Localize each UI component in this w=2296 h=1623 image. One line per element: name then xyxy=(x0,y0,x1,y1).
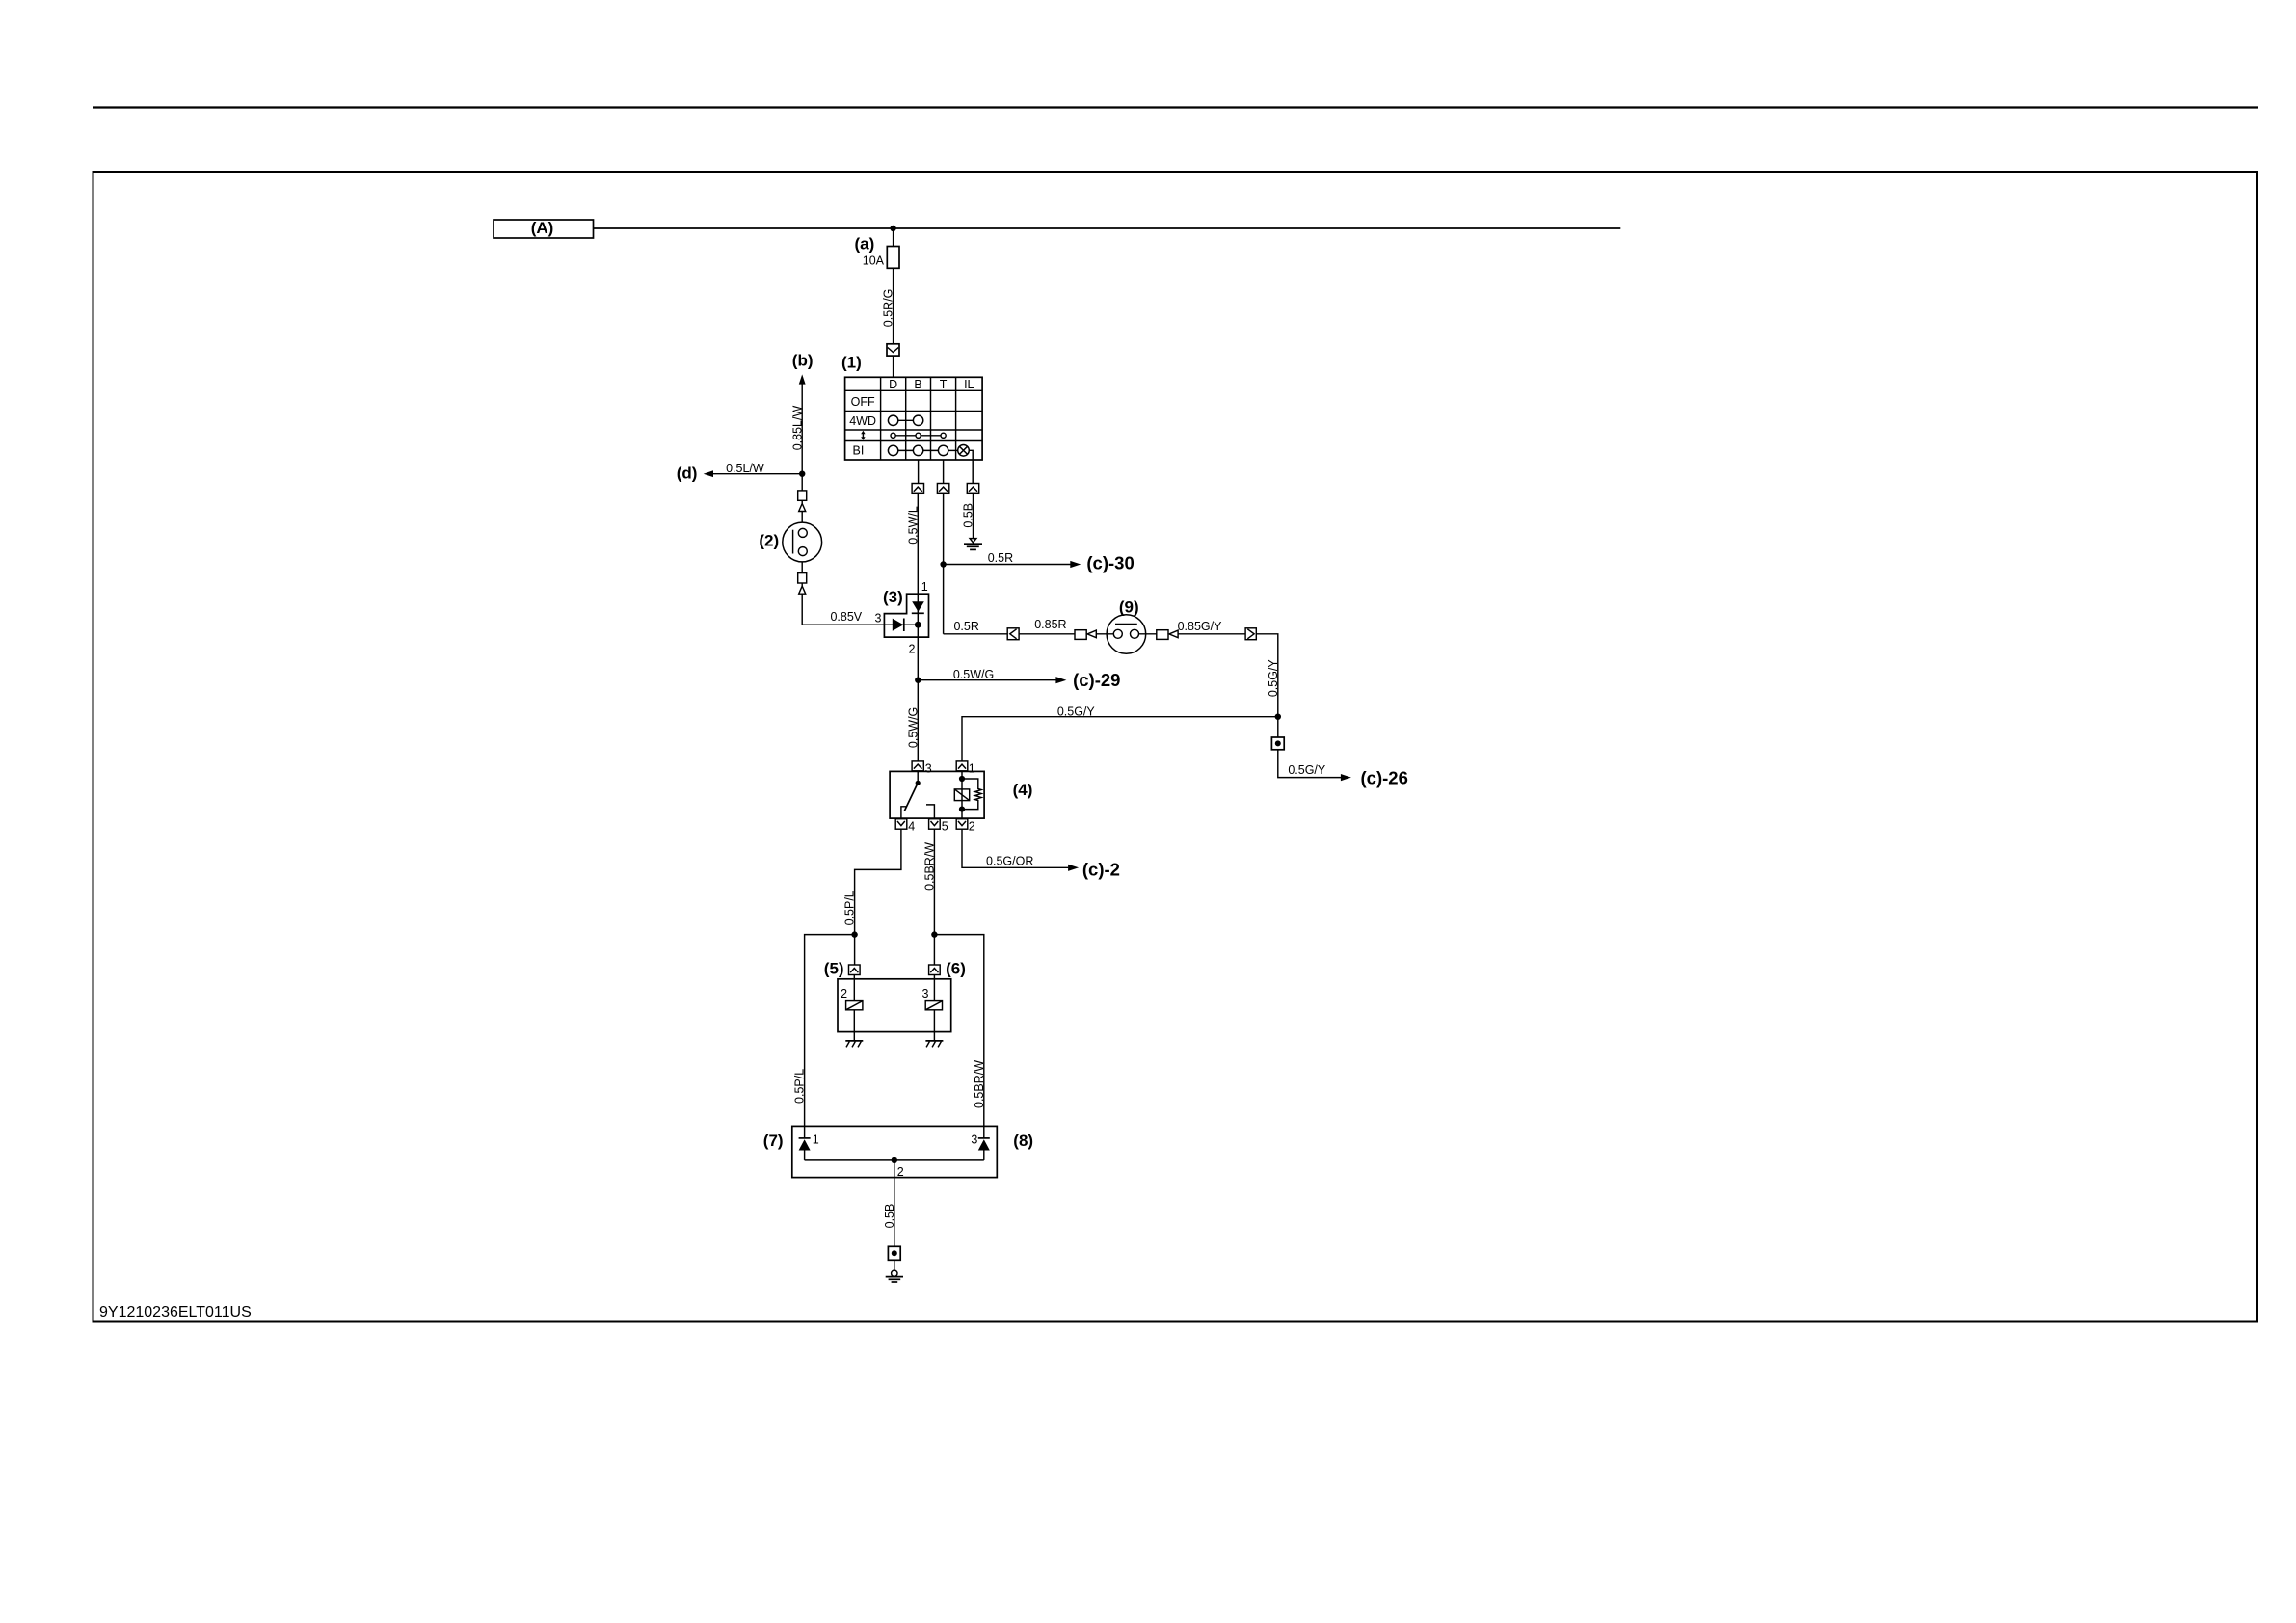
relay (4) pin 2 connector xyxy=(956,819,975,834)
relay (4) body xyxy=(890,771,1032,818)
junction: diode (3) cathode node xyxy=(915,622,921,628)
svg-text:1: 1 xyxy=(969,762,975,776)
wire 0.5BR/W relay pin 5 down xyxy=(923,829,937,965)
svg-text:(4): (4) xyxy=(1013,781,1033,799)
svg-text:(b): (b) xyxy=(792,352,814,370)
wire 0.5P/L left loop to diode (7) xyxy=(793,935,855,1138)
wire 0.5R/G fuse to connector xyxy=(882,268,895,344)
junction: 0.5G/Y node xyxy=(1275,714,1281,720)
svg-text:0.85V: 0.85V xyxy=(830,610,862,624)
svg-text:B: B xyxy=(914,378,921,391)
svg-text:0.5W/L: 0.5W/L xyxy=(906,506,920,545)
relay (4) pin 1 connector xyxy=(956,761,975,776)
svg-text:3: 3 xyxy=(971,1133,977,1147)
svg-text:(c)-2: (c)-2 xyxy=(1082,859,1120,879)
wire: diode common bus pin 2 xyxy=(805,1160,984,1179)
connector (6) xyxy=(929,959,966,977)
wire 0.5B from switch (1) IL to ground xyxy=(962,484,979,539)
svg-text:IL: IL xyxy=(964,378,974,391)
svg-text:0.5G/OR: 0.5G/OR xyxy=(986,855,1033,868)
svg-text:0.5L/W: 0.5L/W xyxy=(726,462,764,475)
svg-text:9Y1210236ELT011US: 9Y1210236ELT011US xyxy=(99,1304,252,1320)
wire from BI lamp out of table xyxy=(969,450,973,483)
switch (1) BI row contacts with lamp xyxy=(888,445,969,457)
junction: 0.5W/G node xyxy=(915,678,921,683)
fuse (a) 10A xyxy=(855,228,900,268)
wire 0.85G/Y xyxy=(1178,620,1246,634)
diode (8) xyxy=(971,1133,989,1160)
svg-text:(a): (a) xyxy=(855,235,875,253)
junction: T wire to (c)-30 xyxy=(940,561,946,567)
svg-text:3: 3 xyxy=(875,612,882,625)
svg-text:2: 2 xyxy=(909,643,916,656)
relay (4) pin 4 connector xyxy=(895,819,915,834)
solenoid box (5)(6) xyxy=(838,979,951,1032)
connector pair below lamp (2) xyxy=(798,562,807,594)
switch (1) shift-row double arrow symbol xyxy=(861,431,865,440)
svg-text:(c)-30: (c)-30 xyxy=(1086,553,1134,573)
wire 0.5G/Y down right side xyxy=(1256,634,1280,717)
svg-text:0.5BR/W: 0.5BR/W xyxy=(923,842,937,891)
svg-text:0.5B: 0.5B xyxy=(883,1204,896,1229)
svg-text:0.5W/G: 0.5W/G xyxy=(906,707,920,748)
svg-text:1: 1 xyxy=(813,1133,819,1147)
switch (9) xyxy=(1107,599,1146,654)
wire 0.5BR/W right loop to diode (8) xyxy=(934,935,986,1138)
diode (3) upper element pin1 to pin2 xyxy=(912,594,924,637)
wire 0.5P/L relay pin 4 down xyxy=(843,829,901,965)
svg-text:0.5G/Y: 0.5G/Y xyxy=(1057,705,1096,718)
junction: 0.5BR/W branch xyxy=(931,931,937,937)
svg-text:(7): (7) xyxy=(763,1131,784,1150)
svg-text:0.5R: 0.5R xyxy=(988,551,1013,565)
connector pair above lamp (2) xyxy=(798,474,807,522)
relay (4) switch contact xyxy=(901,771,935,818)
svg-text:3: 3 xyxy=(922,987,929,1000)
wire 0.5G/Y to (c)-26 xyxy=(1278,750,1408,788)
svg-text:0.5R: 0.5R xyxy=(953,620,978,633)
connector (5) xyxy=(824,959,860,977)
relay (4) pin 3 connector xyxy=(912,761,932,776)
wire 0.5R to (c)-30 xyxy=(944,551,1135,573)
svg-text:(1): (1) xyxy=(841,354,862,372)
wire 0.5W/L from switch (1) B to diode pack (3) pin 1 xyxy=(906,460,923,594)
solenoid coil (6) xyxy=(925,975,942,1041)
diode (7) xyxy=(799,1133,819,1160)
svg-text:0.85L/W: 0.85L/W xyxy=(790,406,804,451)
svg-text:10A: 10A xyxy=(863,254,885,268)
wire 0.5R to connector xyxy=(944,620,1008,634)
svg-text:(8): (8) xyxy=(1013,1131,1033,1150)
wire: (d) branch arrow 0.5L/W xyxy=(677,462,803,483)
grommet on 0.5G/Y xyxy=(1271,717,1284,750)
svg-text:(d): (d) xyxy=(677,465,698,483)
svg-text:T: T xyxy=(940,378,948,391)
diode box (7)(8) xyxy=(763,1126,1033,1177)
wire 0.85R xyxy=(1019,618,1075,634)
lamp switch (2) xyxy=(759,522,821,562)
svg-text:(c)-29: (c)-29 xyxy=(1073,670,1120,690)
wire pin2 of (3) down xyxy=(917,637,919,680)
svg-text:(2): (2) xyxy=(759,532,779,550)
ground: chassis under (5) xyxy=(845,1041,863,1048)
connector: inline on 0.5R/G above switch (1) xyxy=(887,344,899,378)
connector pair after switch (9) xyxy=(1139,630,1179,640)
junction: diode bus node xyxy=(892,1157,897,1163)
svg-text:(5): (5) xyxy=(824,959,844,977)
grommet on 0.5B xyxy=(888,1246,900,1260)
switch (1) drive switch contact table xyxy=(841,354,982,461)
svg-text:0.5P/L: 0.5P/L xyxy=(843,891,857,925)
svg-text:3: 3 xyxy=(925,762,932,776)
svg-text:4WD: 4WD xyxy=(849,414,876,428)
svg-text:0.5G/Y: 0.5G/Y xyxy=(1267,659,1280,698)
wire: (b) branch arrow 0.85L/W xyxy=(790,352,813,474)
junction: bus to fuse (a) xyxy=(890,226,895,231)
svg-text:1: 1 xyxy=(921,580,928,594)
ground: switch (1) IL earth xyxy=(964,539,982,550)
svg-text:4: 4 xyxy=(908,820,915,834)
svg-text:0.5R/G: 0.5R/G xyxy=(882,289,895,328)
diode (3) lower element pin3 to pin2 xyxy=(884,619,918,632)
connector pair before switch (9) xyxy=(1075,630,1113,640)
ground: chassis under (6) xyxy=(925,1041,943,1048)
svg-text:OFF: OFF xyxy=(851,395,875,409)
connector: inline box-chevron right xyxy=(1245,628,1256,640)
wire 0.85V to diode pack (3) pin 3 xyxy=(802,594,884,625)
relay (4) pin 5 connector xyxy=(929,819,948,834)
svg-text:2: 2 xyxy=(897,1165,904,1179)
wire 0.5G/OR relay pin 2 to (c)-2 xyxy=(962,829,1120,879)
solenoid coil (5) xyxy=(846,975,863,1041)
ground: bottom earth xyxy=(886,1260,903,1282)
svg-text:(3): (3) xyxy=(883,588,903,606)
relay (4) coil with parallel resistor xyxy=(954,771,981,819)
svg-text:0.85R: 0.85R xyxy=(1034,618,1066,631)
junction: 0.5P/L branch xyxy=(851,931,857,937)
svg-text:2: 2 xyxy=(969,820,975,834)
wire from switch (1) T down xyxy=(937,460,948,565)
svg-text:0.5G/Y: 0.5G/Y xyxy=(1288,763,1326,777)
wire 0.5B to bottom ground xyxy=(883,1160,896,1246)
connector: inline box-chevron left xyxy=(1007,628,1019,640)
svg-text:D: D xyxy=(889,378,897,391)
svg-text:(6): (6) xyxy=(946,959,966,977)
svg-text:5: 5 xyxy=(942,820,948,834)
junction: b/d branch on lamp (2) feed xyxy=(799,471,805,477)
wire T net down to 0.5R chain xyxy=(943,565,945,634)
svg-text:(A): (A) xyxy=(531,219,554,237)
switch (1) shift row contacts xyxy=(891,433,946,438)
svg-text:BI: BI xyxy=(852,444,864,458)
svg-text:0.85G/Y: 0.85G/Y xyxy=(1178,620,1223,633)
svg-text:(c)-26: (c)-26 xyxy=(1361,768,1408,788)
svg-text:2: 2 xyxy=(841,987,847,1000)
svg-text:0.5W/G: 0.5W/G xyxy=(953,668,994,681)
switch (1) 4WD row contacts xyxy=(888,415,922,425)
wire 0.5G/Y to relay (4) pin 1 xyxy=(962,705,1278,761)
wire: main feed bus from (A) xyxy=(594,227,1621,229)
svg-text:0.5P/L: 0.5P/L xyxy=(793,1069,807,1104)
svg-text:0.5BR/W: 0.5BR/W xyxy=(973,1060,986,1108)
wire 0.5W/G to (c)-29 xyxy=(918,668,1120,690)
svg-text:0.5B: 0.5B xyxy=(962,503,975,528)
node (A) power feed box xyxy=(494,219,594,238)
wire 0.5W/G down to relay (4) pin 3 xyxy=(906,680,920,761)
diode pack (3) xyxy=(875,580,929,656)
svg-text:(9): (9) xyxy=(1119,599,1139,617)
